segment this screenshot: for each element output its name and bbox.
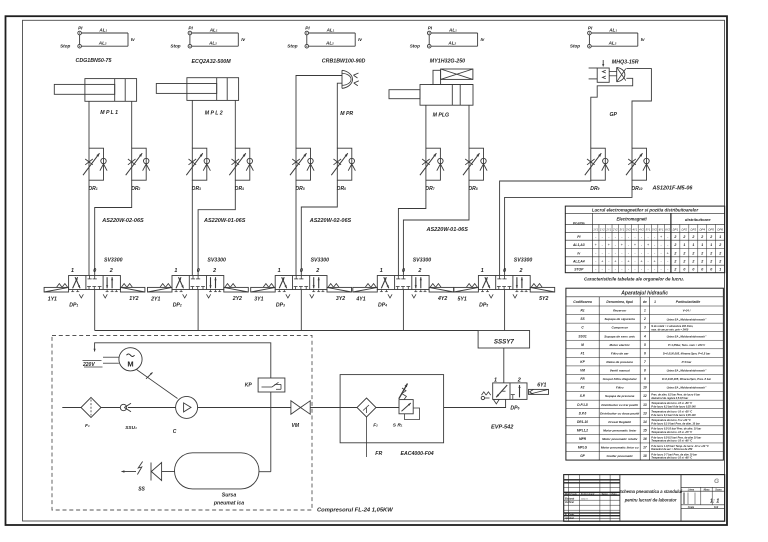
svg-text:Denumirea, tipul: Denumirea, tipul	[606, 300, 633, 304]
svg-text:2: 2	[643, 317, 646, 321]
svg-text:CDG1BN50-75: CDG1BN50-75	[76, 58, 113, 64]
svg-text:FR: FR	[580, 377, 585, 381]
svg-text:F1: F1	[581, 351, 585, 355]
svg-text:Greifer pneumatic: Greifer pneumatic	[606, 454, 633, 458]
svg-text:D=0,01/0,005, filtrarea 5µm, P: D=0,01/0,005, filtrarea 5µm, P=0,5 bar	[663, 352, 711, 356]
svg-text:N document.: N document.	[581, 493, 595, 496]
svg-text:distribuitoare: distribuitoare	[685, 217, 711, 222]
svg-text:3: 3	[644, 326, 646, 330]
svg-text:DP1: DP1	[673, 227, 679, 231]
flow control DR10	[632, 148, 647, 180]
svg-text:Releu de presiune: Releu de presiune	[606, 360, 633, 364]
svg-text:SV3300: SV3300	[514, 258, 533, 264]
svg-text:1: 1	[701, 243, 703, 247]
wire DR3 to valve2	[191, 180, 193, 275]
title block	[564, 475, 725, 522]
wire DR6 to valve3	[301, 180, 337, 275]
svg-text:Stop: Stop	[410, 44, 420, 49]
electric supply wire motor to KP	[95, 343, 271, 378]
svg-text:Iv: Iv	[481, 37, 485, 42]
filter F2	[357, 398, 376, 417]
wire DR7 to valve4	[398, 180, 426, 275]
svg-text:15: 15	[643, 428, 647, 432]
svg-text:2: 2	[709, 235, 712, 239]
svg-text:6Y1: 6Y1	[659, 227, 664, 231]
svg-text:C: C	[173, 429, 177, 435]
svg-text:MPL1,2: MPL1,2	[577, 428, 588, 432]
wire DR4 to valve2	[198, 180, 235, 275]
wire valve4 supply to bus	[402, 290, 404, 331]
svg-text:AS220W-02-06S: AS220W-02-06S	[101, 218, 144, 224]
svg-text:2: 2	[417, 268, 421, 274]
svg-text:5Y2: 5Y2	[652, 227, 657, 231]
flow control DR6	[337, 148, 352, 180]
svg-text:2: 2	[682, 251, 685, 255]
svg-text:M P L 1: M P L 1	[100, 110, 118, 116]
svg-text:1: 1	[710, 243, 712, 247]
svg-text:1: 1	[71, 268, 74, 274]
svg-text:1Y2: 1Y2	[129, 296, 138, 302]
limit switch indicator group 5	[588, 31, 592, 35]
svg-text:Temperatura de lucru -10 si +: Temperatura de lucru -10 si +70 °C	[651, 431, 692, 434]
svg-text:1: 1	[692, 243, 694, 247]
wire tank to riser	[259, 471, 271, 473]
wire FR supply to EVP-542	[444, 399, 506, 407]
wire main through FR	[340, 407, 357, 409]
svg-text:pentru lucrari de laborator: pentru lucrari de laborator	[624, 498, 677, 503]
svg-text:Filtru de aer: Filtru de aer	[611, 351, 630, 355]
motor shaft to compressor	[137, 370, 178, 399]
flow control DR8	[469, 148, 484, 180]
svg-text:MHQ3-15R: MHQ3-15R	[612, 60, 639, 66]
limit switch indicator group 3	[305, 31, 309, 35]
svg-text:Motor pneumatic rotativ: Motor pneumatic rotativ	[602, 437, 638, 441]
svg-text:M P L 2: M P L 2	[205, 111, 223, 117]
wire DR5 to valve3	[295, 180, 297, 275]
svg-text:M: M	[581, 343, 584, 347]
svg-text:Olan V.: Olan V.	[581, 499, 589, 501]
wire gripper inner to DR9	[591, 78, 633, 148]
svg-text:D.P.1-5: D.P.1-5	[577, 403, 588, 407]
svg-text:1: 1	[719, 268, 721, 272]
svg-text:PI: PI	[588, 25, 593, 30]
svg-text:2: 2	[700, 235, 703, 239]
svg-text:Motor pneumatic liniar cu: Motor pneumatic liniar cu	[601, 446, 639, 450]
cylinder MPL2	[187, 78, 239, 101]
svg-text:DR1-10: DR1-10	[577, 420, 588, 424]
flow control DR9	[591, 148, 606, 180]
limit switch indicator group 4	[427, 31, 431, 35]
svg-text:MPLG: MPLG	[578, 446, 588, 450]
svg-text:Lucrul electromagnetilor si po: Lucrul electromagnetilor si pozitia dist…	[592, 208, 699, 213]
svg-text:Motor electric: Motor electric	[610, 343, 631, 347]
svg-text:Stop: Stop	[170, 44, 180, 49]
svg-text:1: 1	[174, 268, 177, 274]
svg-text:Diametrul de aer = 32/cursa de: Diametrul de aer = 32/cursa de 250	[651, 448, 693, 451]
svg-text:SSSY7: SSSY7	[494, 339, 515, 346]
svg-text:M: M	[127, 360, 133, 369]
svg-text:P de lucru 0,1-9 bar/ Pre: P de lucru 0,1-9 bar/ Pres. de alim. 10 …	[651, 422, 701, 425]
svg-text:2: 2	[691, 251, 694, 255]
table: Aparatajul hidraulic	[566, 288, 724, 460]
svg-text:AL1,A3: AL1,A3	[572, 243, 585, 247]
svg-text:AL2,A4: AL2,A4	[572, 260, 585, 264]
valve SV3300 #5	[478, 276, 530, 290]
wire DR2 to valve SV3300 #1 port	[95, 180, 132, 275]
svg-text:1Y1: 1Y1	[48, 296, 57, 302]
svg-text:P de lucru 6,3 bar/ 6 de lucr: P de lucru 6,3 bar/ 6 de lucru 0,35-140	[651, 414, 696, 417]
svg-text:AL2: AL2	[447, 41, 456, 46]
svg-text:AL2: AL2	[98, 41, 107, 46]
svg-text:AS1201F-M5-06: AS1201F-M5-06	[652, 185, 694, 191]
svg-text:Uzina-SA „Moldovahidromash”: Uzina-SA „Moldovahidromash”	[667, 317, 707, 321]
svg-text:2: 2	[673, 235, 676, 239]
svg-text:Temperatura de lucru -10 si +: Temperatura de lucru -10 si +60 °C	[651, 457, 692, 460]
wire MPL2 left port to DR3	[191, 100, 193, 148]
svg-text:14: 14	[643, 420, 647, 424]
svg-text:2: 2	[212, 268, 216, 274]
svg-text:2: 2	[673, 268, 676, 272]
svg-text:Schema pneumatica a standului: Schema pneumatica a standului	[619, 489, 683, 494]
svg-text:AL2: AL2	[325, 41, 334, 46]
wire F1 to SSU1	[101, 407, 120, 409]
flow control DR7	[426, 148, 441, 180]
svg-text:0: 0	[300, 268, 303, 274]
svg-text:Stop: Stop	[60, 44, 70, 49]
wire C to VM (crosses KP riser junction)	[198, 407, 291, 409]
svg-text:Compresorul FL-24 1,05KW: Compresorul FL-24 1,05KW	[317, 508, 393, 514]
wire SSU1 to compressor C	[128, 407, 176, 409]
svg-text:KP: KP	[245, 382, 253, 388]
svg-text:AL1: AL1	[448, 27, 457, 32]
pressure switch KP	[258, 378, 285, 392]
rotary actuator MPR	[341, 70, 343, 88]
svg-text:2Y2: 2Y2	[232, 296, 242, 302]
svg-text:Aparatajul hidraulic: Aparatajul hidraulic	[620, 291, 668, 297]
svg-text:Grupul Filtru-Regulator: Grupul Filtru-Regulator	[603, 377, 638, 381]
svg-text:DP3: DP3	[691, 227, 697, 231]
svg-text:G: G	[714, 478, 719, 485]
svg-text:AL1: AL1	[98, 27, 107, 32]
svg-text:F2: F2	[581, 386, 585, 390]
svg-text:2: 2	[682, 260, 685, 264]
safety valve SS	[122, 471, 137, 473]
svg-text:Distribuitor cu doua pozitii: Distribuitor cu doua pozitii	[600, 411, 639, 415]
svg-text:2Y1: 2Y1	[150, 296, 160, 302]
wire MPR port B to DR6	[337, 83, 342, 148]
svg-text:DP4: DP4	[699, 227, 705, 231]
svg-text:Scara: Scara	[715, 489, 722, 491]
wire F2 drain	[366, 417, 368, 457]
solenoid 6Y1 of EVP-542	[529, 389, 549, 394]
wire MPLG right port to DR8	[468, 105, 470, 148]
flow control DR3	[192, 148, 207, 180]
svg-text:Distribuitor cu trei pozitii: Distribuitor cu trei pozitii	[601, 403, 638, 407]
svg-text:S.P.: S.P.	[580, 394, 586, 398]
valve SV3300 #1 (5/3 solenoid)	[69, 276, 121, 290]
svg-text:VM: VM	[580, 369, 585, 373]
svg-text:2: 2	[691, 260, 694, 264]
wire KP riser down to main line and tank	[270, 392, 272, 472]
svg-text:GP: GP	[610, 112, 618, 118]
svg-text:2Y1: 2Y1	[605, 227, 611, 231]
svg-text:2: 2	[700, 251, 703, 255]
flow control DR1	[89, 148, 104, 180]
svg-text:2: 2	[682, 235, 685, 239]
svg-text:Rezervor: Rezervor	[613, 309, 627, 313]
svg-text:1: 1	[380, 268, 383, 274]
svg-text:6: 6	[644, 351, 646, 355]
svg-text:AL2: AL2	[608, 41, 617, 46]
svg-text:2: 2	[718, 243, 721, 247]
svg-text:4Y2: 4Y2	[437, 296, 447, 302]
svg-text:Verificat: Verificat	[565, 501, 574, 504]
svg-text:EVP-542: EVP-542	[491, 425, 514, 431]
svg-text:5Y2: 5Y2	[539, 296, 548, 302]
svg-text:4Y1: 4Y1	[355, 296, 365, 302]
svg-text:PI: PI	[188, 25, 193, 30]
svg-text:Electromagneti: Electromagneti	[616, 217, 647, 222]
wire DR8 to valve4	[403, 180, 469, 275]
wire valve1 supply to bus	[94, 290, 96, 331]
svg-text:Elaborat: Elaborat	[565, 498, 574, 501]
wire DR1 to valve SV3300 #1 port	[88, 180, 90, 275]
svg-text:5: 5	[644, 343, 646, 347]
svg-text:AL2: AL2	[208, 41, 217, 46]
compressor C	[176, 396, 198, 418]
svg-text:2: 2	[315, 268, 319, 274]
svg-text:1: 1	[654, 300, 656, 304]
svg-text:5Y1: 5Y1	[646, 227, 651, 231]
svg-text:7: 7	[644, 360, 646, 364]
svg-text:0: 0	[710, 268, 712, 272]
wire VM to FR unit	[310, 407, 340, 409]
svg-text:Supapa de siguranta: Supapa de siguranta	[604, 317, 635, 321]
wire valve3 supply to bus	[300, 290, 302, 331]
svg-text:2: 2	[673, 251, 676, 255]
wire MPL2 right port to DR4	[234, 100, 236, 148]
svg-text:0: 0	[402, 268, 405, 274]
svg-text:DP2: DP2	[682, 227, 688, 231]
svg-text:SSU1: SSU1	[578, 334, 587, 338]
svg-text:Caracteristicile tabelate ale: Caracteristicile tabelate ale organelor …	[584, 276, 684, 281]
valve SV3300 #4	[377, 276, 429, 290]
svg-text:Stop: Stop	[287, 44, 297, 49]
svg-text:3Y1: 3Y1	[619, 227, 624, 231]
svg-text:Uzina-SA „Moldovahidromash”: Uzina-SA „Moldovahidromash”	[667, 386, 707, 390]
svg-text:EAC4000-F04: EAC4000-F04	[401, 451, 434, 457]
valve EVP-542 (3/2)	[493, 383, 527, 400]
svg-text:N. Contr.: N. Contr.	[565, 514, 575, 517]
check valve SSU1	[120, 404, 126, 410]
wire valve5 supply to SSSY7	[504, 290, 506, 331]
svg-text:Rz: Rz	[581, 309, 585, 313]
svg-text:PI: PI	[428, 25, 433, 30]
svg-text:P=6 bar: P=6 bar	[682, 360, 693, 364]
svg-text:0: 0	[701, 268, 703, 272]
svg-text:Coala: Coala	[688, 507, 695, 509]
valve SV3300 #2	[172, 276, 224, 290]
compressor enclosure dashed box	[52, 336, 312, 511]
svg-text:8: 8	[644, 369, 646, 373]
flow control DR4	[235, 148, 250, 180]
svg-text:Uzina-SA „Moldovahidromash”: Uzina-SA „Moldovahidromash”	[667, 369, 707, 373]
gripper GP body	[597, 68, 609, 82]
svg-text:0: 0	[503, 268, 506, 274]
svg-text:1: 1	[481, 268, 484, 274]
svg-text:1: 1: 1: 1	[710, 499, 719, 505]
svg-text:10: 10	[643, 386, 647, 390]
svg-text:AS220W-01-06S: AS220W-01-06S	[426, 227, 469, 233]
svg-text:PI: PI	[78, 25, 83, 30]
svg-text:Stop: Stop	[570, 44, 580, 49]
wire MPLG left port to DR7	[425, 105, 427, 148]
svg-text:1Y2: 1Y2	[600, 227, 605, 231]
svg-text:Coli: Coli	[714, 507, 719, 509]
manual valve VM	[291, 401, 301, 414]
svg-text:Masa: Masa	[704, 489, 710, 491]
wire cylinder MPL1 right port to DR2	[131, 101, 133, 148]
svg-text:pneumat ica: pneumat ica	[213, 501, 244, 507]
svg-text:SV3300: SV3300	[311, 258, 330, 264]
motor M	[119, 348, 142, 371]
svg-text:SV3300: SV3300	[413, 258, 432, 264]
regulator SR1	[399, 400, 413, 414]
svg-text:Iv: Iv	[641, 37, 645, 42]
svg-text:AL1: AL1	[608, 27, 617, 32]
svg-text:Aprobat: Aprobat	[564, 517, 574, 520]
svg-text:1: 1	[644, 309, 646, 313]
svg-text:13: 13	[643, 403, 647, 407]
svg-text:1Y1: 1Y1	[593, 227, 598, 231]
FR unit enclosure EAC4000-F04	[340, 375, 444, 443]
wire valve2 supply to bus	[197, 290, 199, 331]
svg-text:CRB1BW100-90D: CRB1BW100-90D	[322, 58, 366, 64]
svg-text:Supapa de presiune: Supapa de presiune	[605, 394, 635, 398]
svg-text:1: 1	[278, 268, 281, 274]
svg-text:3Y2: 3Y2	[336, 296, 345, 302]
svg-text:de: de	[643, 300, 647, 304]
wire DR9 to valve5	[500, 180, 591, 275]
svg-text:2Y2: 2Y2	[612, 227, 618, 231]
svg-text:16: 16	[643, 437, 647, 441]
svg-text:DP6: DP6	[717, 227, 723, 231]
air receiver tank Sursa pneumatica	[175, 453, 260, 489]
svg-text:13: 13	[643, 411, 647, 415]
intake filter F1	[81, 397, 101, 417]
svg-text:0: 0	[683, 268, 685, 272]
svg-text:2: 2	[700, 260, 703, 264]
svg-text:Ventil manual: Ventil manual	[610, 369, 630, 373]
supply bus wire valves 1-4 to SSSY7	[95, 330, 478, 332]
wire MPR port A to DR5	[296, 76, 342, 149]
svg-text:diametrul de reglare 0,5-8,5 b: diametrul de reglare 0,5-8,5 bar	[651, 397, 689, 400]
svg-text:MY1H32G-250: MY1H32G-250	[430, 58, 465, 64]
svg-text:V=24 l: V=24 l	[683, 309, 691, 313]
svg-text:D=0,01/0,005, filtrarea 5µm, P: D=0,01/0,005, filtrarea 5µm, Pres. 8 bar	[662, 377, 712, 381]
svg-text:2: 2	[519, 268, 523, 274]
svg-text:5Y1: 5Y1	[458, 296, 467, 302]
svg-text:M PLG: M PLG	[433, 112, 449, 118]
svg-text:3Y1: 3Y1	[254, 296, 263, 302]
rodless cylinder MPLG	[420, 85, 473, 106]
svg-text:AS220W-02-06S: AS220W-02-06S	[309, 218, 352, 224]
svg-text:2: 2	[517, 377, 521, 383]
wire SSSY7 to valve EVP-542	[503, 348, 505, 383]
svg-text:ECQ2A32-500M: ECQ2A32-500M	[192, 59, 232, 65]
svg-text:SS: SS	[138, 487, 145, 493]
svg-text:0: 0	[197, 268, 200, 274]
svg-text:Mod Coala: Mod Coala	[565, 494, 577, 496]
svg-text:2: 2	[718, 260, 721, 264]
svg-text:6Y1: 6Y1	[537, 382, 546, 388]
svg-text:P de lucru 6,3 bar/ 6 de lucr: P de lucru 6,3 bar/ 6 de lucru 0,35-140	[651, 405, 696, 408]
limit switch indicator group 2	[188, 31, 192, 35]
manifold SSSY7	[478, 331, 529, 349]
svg-text:PI: PI	[305, 25, 310, 30]
svg-text:6Y2: 6Y2	[665, 227, 670, 231]
svg-text:1: 1	[719, 235, 721, 239]
wire DR10 to valve5	[505, 180, 632, 275]
svg-text:Drosel Reglabil: Drosel Reglabil	[608, 420, 631, 424]
svg-text:18: 18	[643, 454, 647, 458]
svg-text:3Y2: 3Y2	[626, 227, 631, 231]
svg-text:D.P.6: D.P.6	[579, 411, 587, 415]
svg-text:2: 2	[673, 243, 676, 247]
svg-text:2: 2	[673, 260, 676, 264]
flow control DR2	[132, 148, 147, 180]
svg-text:M PR: M PR	[340, 111, 353, 117]
svg-text:2: 2	[709, 251, 712, 255]
svg-text:2: 2	[718, 251, 721, 255]
svg-text:Particularitatile: Particularitatile	[676, 300, 701, 304]
svg-text:SV3300: SV3300	[207, 258, 226, 264]
svg-text:FR: FR	[375, 451, 382, 457]
svg-text:2: 2	[691, 235, 694, 239]
svg-text:9: 9	[644, 377, 646, 381]
svg-text:0: 0	[692, 268, 694, 272]
svg-text:Iv: Iv	[241, 37, 245, 42]
svg-text:P=1,05kw, Tens. nom = 220 V: P=1,05kw, Tens. nom = 220 V	[668, 343, 705, 347]
wire cylinder MPL1 left port to DR1	[88, 101, 90, 148]
valve SV3300 #3	[275, 276, 327, 290]
svg-text:max. de aer pe min. prin = 240: max. de aer pe min. prin = 2400	[651, 328, 689, 331]
svg-text:Codificarea: Codificarea	[573, 300, 592, 304]
svg-text:2: 2	[109, 268, 113, 274]
svg-text:2: 2	[709, 260, 712, 264]
flow control DR5	[296, 148, 311, 180]
svg-text:VM: VM	[292, 423, 300, 429]
svg-text:Filtru: Filtru	[616, 386, 624, 390]
svg-text:Sursa: Sursa	[222, 493, 237, 499]
svg-text:SV3300: SV3300	[104, 258, 123, 264]
svg-text:AL1: AL1	[209, 27, 218, 32]
svg-text:17: 17	[643, 446, 647, 450]
svg-text:Pozitia: Pozitia	[573, 222, 585, 226]
svg-text:AL1: AL1	[326, 27, 335, 32]
gripper GP jaws	[616, 67, 618, 81]
svg-text:Temperatura de lucru -10 si +: Temperatura de lucru -10 si +60 °C	[651, 440, 692, 443]
svg-text:Iv: Iv	[131, 37, 135, 42]
svg-text:STOP: STOP	[574, 268, 584, 272]
svg-text:12: 12	[643, 394, 647, 398]
svg-text:MPR: MPR	[579, 437, 587, 441]
svg-text:PI: PI	[577, 235, 580, 239]
limit switch indicator PI/Stop/AL1/AL2 group 1	[78, 31, 82, 35]
svg-text:Data: Data	[612, 493, 618, 496]
svg-text:Compresor: Compresor	[611, 326, 628, 330]
svg-text:1: 1	[683, 243, 685, 247]
